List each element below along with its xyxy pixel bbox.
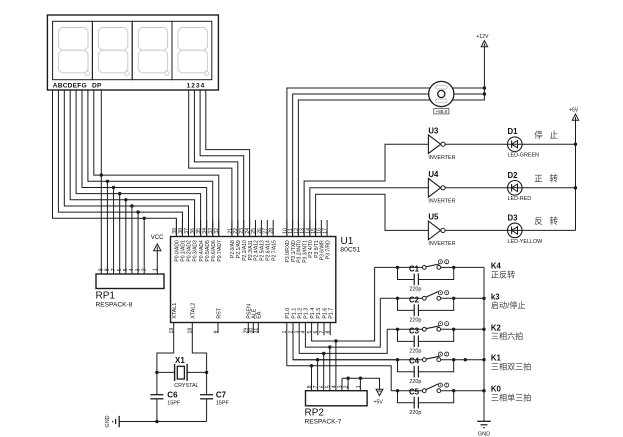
display digit labels 1234 — [187, 82, 206, 89]
svg-text:2: 2 — [344, 385, 350, 388]
svg-text:K4: K4 — [491, 261, 502, 270]
junction dots segment lines to RP1 resistors — [100, 173, 146, 220]
svg-text:K0: K0 — [491, 385, 502, 394]
svg-text:220p: 220p — [409, 287, 421, 293]
svg-text:7: 7 — [319, 331, 325, 334]
svg-text:U1: U1 — [341, 236, 354, 247]
capacitor C3 220p — [398, 329, 454, 347]
svg-text:启动/停止: 启动/停止 — [491, 300, 526, 310]
svg-text:8: 8 — [307, 385, 313, 388]
svg-text:三相双三拍: 三相双三拍 — [491, 362, 531, 372]
resistor pack RP2 — [306, 391, 368, 406]
svg-text:5: 5 — [123, 268, 129, 271]
svg-text:LED-RED: LED-RED — [508, 196, 532, 202]
svg-text:P2.7/A15: P2.7/A15 — [271, 240, 277, 261]
K0 labels — [491, 385, 531, 403]
X1 labels — [174, 356, 198, 389]
svg-text:LED-YELLOW: LED-YELLOW — [508, 239, 544, 245]
wire U1 P3.0 to motor — [287, 88, 430, 237]
wires display digit pins 1-4 to U1 P2.0-P2.3 — [189, 90, 250, 237]
svg-text:C6: C6 — [167, 391, 178, 400]
wire display common pin down to RP1 pin 9 — [100, 90, 102, 274]
extra junction dot K1 row — [464, 358, 467, 361]
RP2 pin numbers — [307, 385, 362, 388]
wire row K0 — [391, 390, 484, 392]
resistor pack RP1 — [96, 274, 164, 289]
wire row K4 — [375, 266, 484, 268]
svg-text:28: 28 — [269, 228, 275, 234]
svg-text:P1.6: P1.6 — [322, 308, 328, 319]
svg-text:1: 1 — [446, 322, 448, 326]
junction dots LED rail — [574, 143, 577, 190]
svg-text:LED-GREEN: LED-GREEN — [508, 153, 540, 159]
K1 labels — [491, 354, 531, 372]
wire U1 P3.2 to motor — [298, 100, 430, 237]
K2 labels — [491, 323, 523, 341]
RP1 label — [96, 291, 133, 309]
svg-text:3: 3 — [338, 385, 344, 388]
power symbol VCC — [151, 235, 164, 251]
capacitor C5 220p — [398, 391, 454, 409]
svg-text:INVERTER: INVERTER — [428, 155, 455, 161]
svg-text:P1.1: P1.1 — [291, 308, 297, 319]
svg-text:P1.4: P1.4 — [310, 308, 316, 319]
svg-text:D1: D1 — [508, 127, 519, 136]
svg-text:GND: GND — [105, 415, 111, 427]
wire U1 XTAL1 to crystal — [157, 323, 174, 373]
7-segment 4-digit display module — [47, 15, 218, 90]
junction dots row K4 — [396, 266, 456, 269]
wire display segment E to U1 P0.4 — [76, 90, 201, 237]
svg-text:C4: C4 — [409, 357, 420, 366]
svg-text:P1.3: P1.3 — [304, 308, 310, 319]
k3 labels — [491, 292, 526, 310]
wire display segment B to U1 P0.1 — [58, 90, 182, 237]
power symbol +5V right — [569, 108, 579, 121]
svg-text:4: 4 — [332, 385, 338, 388]
capacitor C7 15PF — [200, 372, 213, 421]
svg-text:K2: K2 — [491, 323, 502, 332]
inverter U3 — [428, 126, 455, 161]
switch K2 — [422, 322, 448, 332]
ground symbol right — [477, 421, 491, 437]
svg-text:6: 6 — [117, 268, 123, 271]
svg-text:正反转: 正反转 — [491, 269, 515, 279]
svg-text:17: 17 — [322, 228, 328, 234]
svg-text:9: 9 — [213, 331, 219, 334]
svg-text:80C51: 80C51 — [340, 247, 360, 254]
wire motor to +12V rail mid — [454, 93, 485, 95]
svg-text:220p: 220p — [409, 410, 421, 416]
junction dots row K1 — [396, 358, 456, 361]
junction dots motor rail — [483, 86, 486, 95]
svg-text:C5: C5 — [409, 388, 420, 397]
C1 labels — [409, 264, 421, 292]
wire crystal row — [157, 371, 207, 373]
svg-text:7: 7 — [111, 268, 117, 271]
wire display segment C to U1 P0.2 — [64, 90, 188, 237]
svg-text:32: 32 — [214, 228, 220, 234]
svg-text:正 转: 正 转 — [534, 174, 560, 184]
wire U1 XTAL2 to crystal — [192, 323, 206, 373]
wire +5V LED rail — [575, 120, 577, 230]
svg-text:6: 6 — [313, 331, 319, 334]
C3 labels — [409, 326, 421, 354]
switch K4 — [422, 260, 448, 270]
svg-text:1: 1 — [446, 384, 448, 388]
svg-text:1: 1 — [446, 353, 448, 357]
LED D2 red with label 正转 — [445, 171, 575, 202]
junction dots row k3 — [396, 297, 456, 300]
svg-text:U5: U5 — [428, 213, 439, 222]
svg-text:D3: D3 — [508, 213, 519, 222]
power symbol +12V — [476, 34, 489, 47]
capacitor C4 220p — [398, 360, 454, 378]
svg-text:停 止: 停 止 — [534, 130, 560, 140]
wire motor to +12V rail bottom — [453, 47, 485, 101]
svg-text:RP2: RP2 — [305, 408, 325, 419]
power symbol +5V down arrow — [374, 389, 384, 405]
svg-text:5: 5 — [325, 385, 331, 388]
wire U1 P1.1 to K1 row — [293, 323, 398, 360]
svg-text:U3: U3 — [428, 126, 439, 135]
svg-text:1: 1 — [446, 291, 448, 295]
wires RP1 pins 8-2 up to segment lines — [107, 181, 144, 274]
junction dots P1 lines to RP2 — [310, 339, 338, 367]
wire U1 P3.3 to U3 input — [304, 144, 428, 236]
U1 top pin names — [175, 240, 332, 263]
svg-text:P0.7/AD7: P0.7/AD7 — [217, 240, 223, 262]
svg-text:X1: X1 — [175, 356, 185, 365]
svg-text:k3: k3 — [491, 292, 500, 301]
C7 labels — [216, 391, 230, 407]
svg-text:7: 7 — [313, 385, 319, 388]
wire motor to +12V rail top — [453, 87, 485, 89]
microcontroller U1 80C51 box — [171, 237, 336, 323]
U1 label — [340, 236, 360, 254]
wire U1 P3.1 to motor — [293, 94, 429, 237]
svg-text:1234: 1234 — [187, 82, 206, 89]
svg-text:RP1: RP1 — [96, 291, 116, 302]
wire switch ground rail — [483, 267, 485, 421]
svg-text:C2: C2 — [409, 295, 420, 304]
display segment labels ABCDEFG DP — [53, 82, 102, 89]
RP2 label — [305, 408, 342, 426]
svg-text:15PF: 15PF — [167, 401, 181, 407]
motor display +88.8 — [434, 109, 449, 114]
junction dots row K0 — [396, 389, 456, 392]
svg-text:P1.5: P1.5 — [316, 308, 322, 319]
svg-text:三相单三拍: 三相单三拍 — [491, 393, 531, 403]
U1 top pin stubs — [176, 220, 327, 237]
junction dot ground row — [155, 420, 158, 423]
LED D1 green with label 停止 — [445, 127, 575, 158]
svg-text:ABCDEFG: ABCDEFG — [53, 82, 87, 89]
svg-text:GND: GND — [478, 432, 490, 437]
K4 labels — [491, 261, 515, 279]
wire U1 P3.4 to U4 input — [310, 188, 429, 237]
svg-text:4: 4 — [129, 268, 135, 271]
svg-text:三相六拍: 三相六拍 — [491, 331, 523, 341]
svg-text:INVERTER: INVERTER — [428, 199, 455, 205]
wire U1 P1.3 to k3 riser — [305, 298, 380, 347]
switch K1 — [422, 352, 448, 362]
svg-text:U4: U4 — [428, 170, 439, 179]
svg-text:31: 31 — [254, 328, 260, 334]
wires RP2 pins to P1 lines — [312, 341, 361, 391]
U1 bottom unconnected pin stubs RST PSEN ALE EA P1.5-P1.7 — [218, 323, 330, 336]
wire ground row — [119, 421, 206, 423]
svg-text:INVERTER: INVERTER — [428, 241, 455, 247]
svg-text:6: 6 — [319, 385, 325, 388]
crystal X1 — [175, 364, 188, 381]
wire display segment A to U1 P0.0 — [53, 90, 177, 237]
svg-text:EA: EA — [257, 311, 263, 319]
svg-text:220p: 220p — [409, 379, 421, 385]
svg-text:RESPACK-7: RESPACK-7 — [305, 419, 342, 426]
RP1 pin numbers — [99, 268, 159, 271]
wire U1 P1.0 to K0 row — [287, 323, 391, 391]
svg-text:D2: D2 — [508, 171, 519, 180]
svg-text:RESPACK-8: RESPACK-8 — [96, 302, 133, 309]
svg-text:2: 2 — [141, 268, 147, 271]
svg-text:CRYSTAL: CRYSTAL — [174, 383, 198, 389]
wire display segment G to U1 P0.6 — [88, 90, 213, 237]
svg-text:8: 8 — [105, 268, 111, 271]
switch k3 — [422, 291, 448, 301]
svg-text:RST: RST — [216, 307, 222, 318]
C6 labels — [167, 391, 181, 407]
svg-text:15PF: 15PF — [216, 401, 230, 407]
svg-text:XTAL1: XTAL1 — [172, 303, 178, 319]
svg-text:XTAL2: XTAL2 — [191, 303, 197, 319]
ground symbol left — [105, 415, 119, 427]
wire U1 P1.4 to K4 riser — [312, 267, 375, 341]
wire display segment D to U1 P0.3 — [70, 90, 194, 237]
inverter U4 — [428, 170, 455, 205]
svg-text:220p: 220p — [409, 349, 421, 355]
svg-text:P1.2: P1.2 — [298, 308, 304, 319]
wire row K1 — [293, 359, 484, 361]
U1 bottom pin names — [172, 303, 335, 319]
U1 top pin numbers — [172, 228, 329, 234]
wire display segment DP to U1 P0.7 — [94, 90, 219, 237]
wire display segment F to U1 P0.5 — [82, 90, 207, 237]
svg-text:K1: K1 — [491, 354, 502, 363]
junction dots crystal row — [155, 371, 208, 374]
svg-text:VCC: VCC — [151, 235, 164, 241]
wire U1 P1.2 to K2 riser — [299, 323, 387, 354]
svg-text:反 转: 反 转 — [534, 216, 560, 226]
svg-text:+5V: +5V — [569, 108, 579, 114]
svg-text:C1: C1 — [409, 264, 420, 273]
motor U2 stepper — [429, 81, 454, 106]
svg-text:1: 1 — [446, 260, 448, 264]
wire RP1 pin1 to VCC — [156, 251, 158, 274]
wire RP2 pins 3-2-1 to +5V — [342, 378, 380, 389]
C4 labels — [409, 357, 421, 385]
svg-text:P1.0: P1.0 — [285, 308, 291, 319]
C5 labels — [409, 388, 421, 416]
wire row k3 — [380, 297, 484, 299]
junction dots switch rail — [482, 297, 485, 393]
LED D3 yellow with label 反转 — [445, 213, 575, 244]
wire row K2 — [387, 328, 484, 330]
capacitor C1 220p — [398, 267, 454, 285]
svg-text:+5V: +5V — [374, 400, 384, 406]
svg-text:1: 1 — [356, 385, 362, 388]
junction dots +5V line — [346, 377, 362, 380]
svg-text:220p: 220p — [409, 318, 421, 324]
capacitor C2 220p — [398, 298, 454, 316]
inverter U5 — [428, 213, 455, 248]
svg-text:C3: C3 — [409, 326, 420, 335]
switch K0 — [422, 383, 448, 393]
svg-text:8: 8 — [326, 331, 332, 334]
svg-text:C7: C7 — [216, 391, 227, 400]
capacitor C6 15PF — [150, 372, 163, 421]
svg-text:3: 3 — [135, 268, 141, 271]
U1 bottom pin numbers — [169, 328, 332, 334]
junction dots row K2 — [396, 328, 456, 331]
svg-text:+12V: +12V — [476, 34, 489, 40]
svg-text:P1.7: P1.7 — [329, 308, 335, 319]
C2 labels — [409, 295, 421, 323]
svg-text:+88.8: +88.8 — [436, 109, 448, 114]
svg-text:P3.7/RD: P3.7/RD — [325, 240, 331, 259]
svg-text:9: 9 — [99, 268, 105, 271]
svg-text:DP: DP — [92, 82, 102, 89]
wire U1 P3.5 to U5 input — [316, 194, 429, 236]
